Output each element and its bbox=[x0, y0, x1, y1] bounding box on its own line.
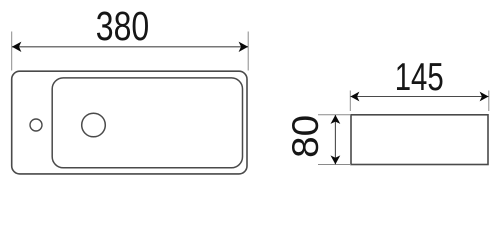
dimension 145: extension line left bbox=[349, 91, 351, 112]
top view: inner basin bowl bbox=[52, 78, 242, 168]
dimension 380: extension line right bbox=[247, 32, 249, 71]
top view: outer basin outline bbox=[12, 71, 247, 174]
svg-text:145: 145 bbox=[395, 56, 444, 99]
dimension 80: bottom arrowhead bbox=[331, 155, 341, 164]
dimension 80: top arrowhead bbox=[331, 115, 341, 124]
dimension 80: extension line top bbox=[318, 114, 351, 116]
dimension 145: right arrowhead bbox=[480, 92, 489, 102]
dimension 380: dimension line bbox=[12, 46, 248, 48]
dimension 80: extension line bottom bbox=[318, 164, 351, 166]
faucet hole bbox=[30, 119, 42, 131]
drain hole bbox=[82, 113, 106, 137]
dimension 145: left arrowhead bbox=[350, 92, 359, 102]
dimension 80: dimension line bbox=[334, 115, 336, 164]
dimension 145: dimension line bbox=[351, 96, 489, 98]
dimension 380: right arrowhead bbox=[239, 42, 249, 52]
dimension 380: left arrowhead bbox=[12, 42, 22, 52]
svg-text:80: 80 bbox=[285, 115, 326, 158]
side view: body rectangle bbox=[351, 115, 488, 165]
dimension 380: extension line left bbox=[11, 32, 13, 71]
svg-text:380: 380 bbox=[96, 3, 150, 49]
dimension 145: extension line right bbox=[488, 91, 490, 112]
